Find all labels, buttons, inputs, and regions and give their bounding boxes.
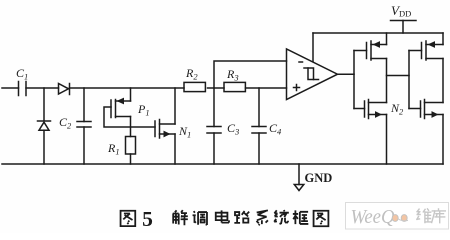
node A (clamp junction) [43, 88, 45, 121]
wire inverter 2 gate line [408, 51, 410, 109]
capacitor C2 [59, 88, 91, 164]
wire R3 to op-amp non-inverting input [246, 87, 287, 89]
svg-text:C3: C3 [227, 121, 239, 137]
char 库 [432, 209, 446, 223]
watermark WeeQoo weiku [346, 203, 449, 230]
char 框 [293, 210, 308, 224]
capacitor C4 [252, 88, 282, 164]
svg-text:C2: C2 [59, 115, 72, 131]
svg-text:VDD: VDD [391, 3, 411, 19]
svg-text:N2: N2 [390, 101, 404, 117]
wire op-amp output to inverter 1 input [338, 73, 355, 75]
svg-text:R1: R1 [107, 141, 120, 157]
svg-text:5: 5 [142, 207, 153, 231]
op-amp U1 (comparator with hysteresis) [287, 49, 338, 100]
transistor N (inverter 2 NMOS) [409, 100, 443, 165]
wire C1 to diode D2 [26, 87, 59, 89]
transistor N1 (NMOS) [155, 88, 191, 164]
char 图 [121, 211, 136, 226]
char 统 [274, 210, 289, 224]
transistor P (inverter 1 PMOS) [354, 33, 387, 103]
wire R2 to R3 [208, 87, 225, 89]
caption: 图 5 解调电路系统框图 [121, 207, 329, 231]
transistor P1 (PMOS, diode-connected) [111, 88, 150, 137]
char 电 [216, 210, 229, 222]
wire input line [2, 87, 19, 89]
wire D2 to R2 (top signal rail) [70, 87, 185, 89]
char 路 [234, 211, 249, 223]
transistor P (inverter 2 PMOS) [409, 33, 443, 103]
wire VDD rail [313, 32, 443, 34]
char 维 [417, 209, 431, 223]
svg-text:N1: N1 [178, 124, 191, 140]
svg-text:C1: C1 [16, 66, 28, 82]
capacitor C1 [16, 66, 28, 96]
resistor R1 [107, 137, 136, 165]
wire ground rail [2, 163, 443, 165]
power VDD symbol [391, 3, 417, 33]
char 调 [193, 211, 207, 225]
ground GND symbol [294, 164, 332, 191]
svg-text:C4: C4 [269, 121, 282, 137]
svg-text:R2: R2 [185, 66, 198, 82]
svg-text:R3: R3 [226, 67, 239, 83]
wire op-amp power pin to VDD rail [312, 33, 314, 62]
svg-text:P1: P1 [137, 102, 150, 118]
transistor N2 (inverter 1 NMOS) [354, 100, 404, 165]
char 系 [256, 210, 267, 225]
resistor R3 [224, 67, 245, 92]
svg-text:WeeQ: WeeQ [351, 206, 396, 228]
char 解 [173, 210, 188, 225]
wire P1 gate loop to N1 gate [104, 107, 155, 127]
wire node J1 up to op-amp inverting input [214, 61, 287, 88]
char 图 (second) [314, 211, 329, 226]
resistor R2 [184, 66, 205, 92]
diode D1 (vertical clamp, cathode bar on top) [38, 121, 51, 164]
diode D2 (series, pointing right) [59, 84, 70, 95]
svg-text:GND: GND [305, 171, 333, 185]
wire inverter 1 gate line [353, 51, 355, 109]
wire inverter 1 output to inverter 2 input [387, 75, 410, 77]
capacitor C3 [207, 88, 239, 164]
